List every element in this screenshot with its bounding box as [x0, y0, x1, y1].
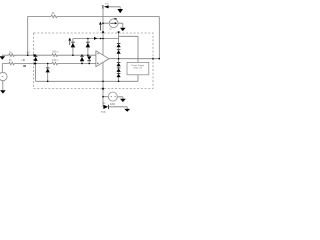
resistor R internal IN+ [52, 62, 58, 65]
pin square IN- [33, 54, 35, 56]
wire IN+ pin to bottom rail [35, 64, 37, 82]
voltage source VIN circle [0, 72, 7, 80]
wire RG ground stub [1, 55, 3, 56]
arrow down into feedback line [117, 9, 123, 13]
pin square OUT [152, 58, 154, 60]
wire ESD source branch [103, 97, 123, 99]
wire feedback top line [28, 15, 160, 17]
diode clampA [80, 57, 84, 62]
dashed device box [34, 33, 153, 89]
diode rail 2 [86, 43, 90, 48]
wire internal V+ rail [73, 38, 119, 40]
wire source branch [1, 64, 4, 91]
wire top diode branch [109, 7, 121, 9]
diode rail 1 [71, 43, 75, 48]
wire output line [109, 58, 159, 60]
resistor RS [9, 62, 15, 65]
ESD source dashed circle [108, 92, 117, 101]
svg-text:ESD: ESD [110, 103, 115, 106]
wire left feedback vertical [27, 16, 29, 55]
svg-text:100 Ω: 100 Ω [52, 59, 59, 62]
svg-text:+IN: +IN [21, 59, 25, 62]
ground source [0, 90, 6, 93]
small mark below IN+ line [23, 65, 26, 66]
small mark below feedback line [114, 18, 116, 19]
diode TVS [103, 105, 108, 109]
diode output column D [117, 68, 121, 72]
wire rail diode1 stubs [72, 39, 74, 56]
wire steering diode stubs [47, 64, 49, 82]
pin square IN+ [33, 63, 35, 65]
ESD circle minus [111, 96, 112, 98]
op-amp minus sign [97, 53, 99, 55]
wire clampB stubs [88, 55, 90, 63]
wire ESD cell bottom stub [137, 75, 139, 82]
arrow right on rail [94, 37, 97, 40]
op-amp U1 [96, 51, 109, 67]
wire supply drop V+ [102, 5, 104, 55]
arrow up annotation left [68, 38, 71, 46]
diode clamp at IN+ pin [34, 57, 38, 61]
resistor R internal IN- [52, 54, 58, 57]
wire TVS branch [109, 107, 127, 109]
svg-text:100 Ω: 100 Ω [52, 50, 59, 53]
wire bottom internal rail [36, 80, 138, 82]
pin square V- [102, 88, 104, 90]
current source circle [109, 19, 118, 28]
diode output column C [117, 63, 121, 67]
diode clampB [87, 56, 91, 60]
svg-text:−IN: −IN [26, 52, 30, 55]
pin square V+ [102, 31, 104, 33]
wire feedback right vertical [158, 16, 160, 58]
wire op-amp V- lead and V- drop [102, 62, 104, 106]
resistor RF [51, 15, 57, 18]
diode output column E [117, 74, 121, 78]
diode output column B [117, 50, 121, 54]
ground supply circle branch [120, 28, 126, 31]
resistor RG [9, 54, 15, 57]
ground TVS branch [124, 109, 130, 112]
svg-text:TVS: TVS [101, 111, 106, 114]
wire supply circle leads [103, 23, 123, 28]
pin square top right [118, 31, 120, 33]
svg-text:Power Supply: Power Supply [131, 64, 145, 67]
ground ESD source branch [120, 99, 126, 102]
svg-text:ESD Cell: ESD Cell [134, 68, 143, 70]
wire clampA stubs [81, 55, 83, 63]
arrow inside current source [110, 22, 117, 24]
op-amp plus sign [97, 62, 99, 64]
diode to supply top [104, 5, 109, 8]
ESD circle plus [114, 96, 115, 97]
junction dots [27, 54, 29, 56]
diode steering IN+ to V- [46, 68, 50, 72]
ground RG [0, 56, 5, 59]
wire connector to ESD cell [119, 36, 138, 62]
diode output column A [117, 44, 121, 48]
wire IN- line [2, 54, 96, 56]
power supply ESD cell box [127, 62, 149, 74]
source circle minus [2, 76, 4, 78]
wire pin clamp diode stubs [35, 55, 37, 63]
wire rail diode2 stubs [87, 39, 89, 56]
arrow up annotation supply [99, 22, 102, 31]
wire output column [118, 33, 120, 81]
wire IN+ line [2, 63, 96, 65]
